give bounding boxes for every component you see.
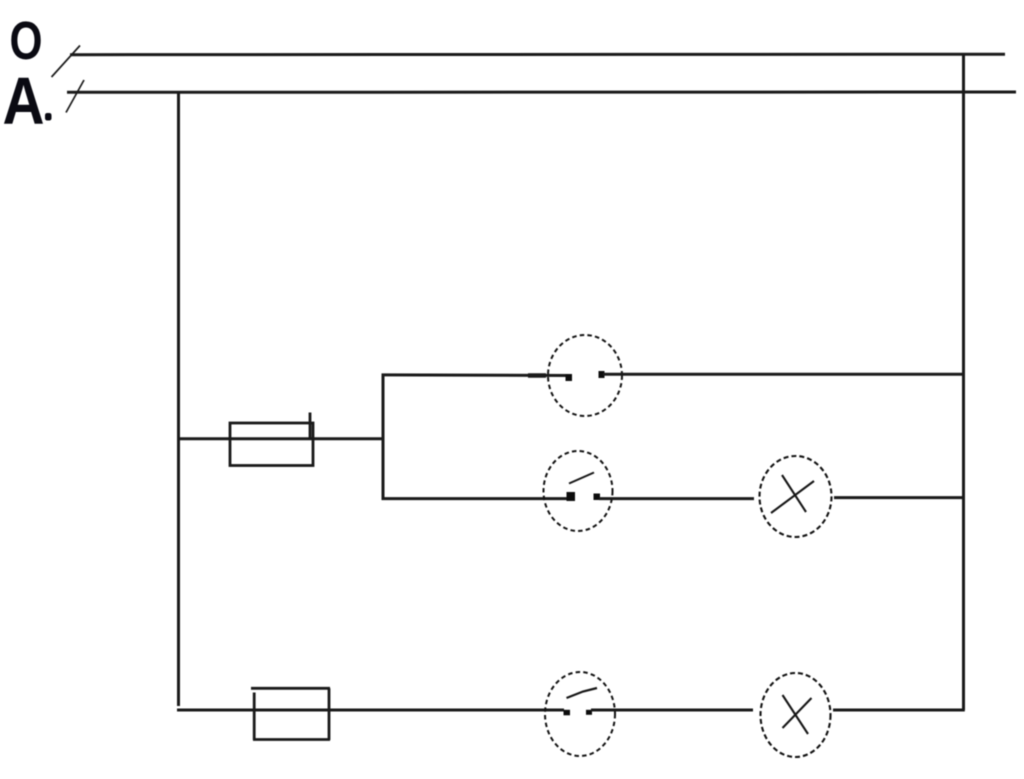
- switch S1 right contact dot: [599, 371, 605, 378]
- wire: supply line O (top horizontal): [70, 53, 1005, 57]
- wire: lamp EL2 to right vertical corner: [833, 709, 965, 712]
- fuse F2 body: [251, 688, 330, 740]
- wire: S3 to lamp EL2: [591, 709, 753, 712]
- lamp EL2 cross stroke 1: [783, 695, 809, 734]
- lamp EL1 body: [760, 456, 832, 537]
- wire: S2 to lamp EL1: [599, 497, 754, 500]
- wire: bottom row through fuse F2 to switch S3: [177, 709, 564, 712]
- break slash on line O: [52, 46, 81, 78]
- lamp EL1 cross stroke 1: [782, 475, 806, 512]
- wire: branch vertical splitter: [382, 374, 385, 501]
- switch S1 body: [548, 335, 622, 416]
- lamp EL2 cross stroke 2: [783, 698, 812, 728]
- wire: middle feeder through fuse F1: [177, 437, 383, 440]
- switch S2 body: [544, 451, 613, 531]
- switch S3 left contact dot: [564, 710, 571, 716]
- wire: supply line A (second horizontal): [67, 91, 1016, 94]
- lamp EL2 body: [761, 673, 831, 757]
- switch S3 right contact dot: [586, 710, 592, 715]
- switch S1 left contact dot: [566, 374, 573, 381]
- break slash on line A: [66, 80, 84, 113]
- switch S2 right contact dot: [594, 494, 601, 501]
- lamp EL1 cross stroke 2: [771, 481, 814, 513]
- svg-text:A: A: [3, 64, 45, 139]
- wire: doubled stroke blob left of S1: [528, 373, 546, 378]
- svg-text:O: O: [10, 12, 43, 71]
- wire: top branch to switch S1: [382, 373, 572, 377]
- wire: lamp EL1 to right vertical: [834, 496, 964, 499]
- wire: right vertical return to line O: [962, 54, 965, 710]
- wire: left vertical feeder from line A: [177, 92, 180, 706]
- fuse F1 body: [230, 413, 313, 466]
- switch S2 lever: [569, 473, 594, 484]
- switch S3 lever: [567, 688, 598, 698]
- switch S3 body: [545, 672, 615, 756]
- switch S2 left contact dot: [567, 492, 576, 501]
- wire: lower branch to switch S2: [382, 497, 575, 500]
- wire: top branch from S1 to right vertical: [603, 373, 964, 376]
